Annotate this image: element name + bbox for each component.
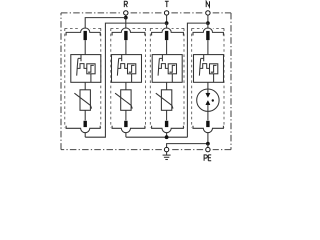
- module 4 housing (dashed plug-in module boundary): [192, 28, 224, 127]
- wire: N feed down to N bus (via channel left of module 4): [187, 23, 208, 137]
- module 1 bottom plug-in contact (disconnector): [66, 121, 100, 133]
- wire: box to N-PE spark gap: [207, 82, 209, 89]
- module 2 top plug-in contact (disconnector): [112, 28, 145, 55]
- N bus (module 2 and 3 outputs to N feed): [126, 136, 187, 138]
- junction node at R feed: [124, 16, 128, 20]
- wire: module 3 output stub: [166, 133, 168, 137]
- N-PE spark gap F4 (circle with facing arrows): [197, 89, 219, 111]
- wire: module 2 output stub: [125, 133, 127, 137]
- junction node at N feed: [206, 21, 210, 25]
- module 3 top plug-in contact (disconnector): [152, 28, 184, 55]
- PE bus (earth link): [167, 144, 208, 148]
- wire: N-PE spark gap to bottom disconnector: [207, 111, 209, 120]
- wire: box to varistor, module 1: [84, 82, 86, 90]
- wire: varistor to bottom disconnector, module 2: [125, 110, 127, 120]
- junction node: module 4 output on PE bus: [206, 142, 210, 146]
- triggered spark gap U4 (box with electrodes and trigger unit): [194, 55, 224, 83]
- PE terminal: [206, 147, 210, 151]
- triggered spark gap U3 (box with electrodes and trigger unit): [152, 55, 182, 83]
- wire: varistor to bottom disconnector, module 1: [84, 110, 86, 120]
- terminal N (neutral conductor) with label: [206, 1, 210, 23]
- terminal T (line conductor) with label: [164, 1, 168, 23]
- junction node at T feed: [165, 21, 169, 25]
- wire: T feed down to module 1 bottom (via left channel): [85, 23, 166, 137]
- label PE: [204, 155, 211, 161]
- wire: N to module 4 top: [207, 23, 209, 29]
- wire: module 1 output stub: [84, 133, 86, 137]
- terminal R (line conductor) with label: [124, 1, 128, 17]
- module 2 bottom plug-in contact (disconnector): [112, 121, 145, 133]
- module 4 bottom plug-in contact (disconnector): [193, 121, 223, 133]
- triggered spark gap U1 (box with electrodes and trigger unit): [71, 55, 101, 83]
- module 2 housing (dashed plug-in module boundary): [111, 28, 146, 127]
- varistor RV3: [156, 90, 173, 111]
- module 3 bottom plug-in contact (disconnector): [152, 121, 184, 133]
- wire: PE bus to PE terminal: [207, 144, 209, 148]
- triggered spark gap U2 (box with electrodes and trigger unit): [112, 55, 142, 83]
- varistor RV1: [74, 90, 91, 111]
- wire: T to module 3 top: [166, 23, 168, 29]
- wire: box to varistor, module 2: [125, 82, 127, 90]
- varistor RV2: [115, 90, 132, 111]
- ground symbol: [163, 152, 171, 160]
- module 3 housing (dashed plug-in module boundary): [150, 28, 184, 127]
- wire: box to varistor, module 3: [166, 82, 168, 90]
- wire: module 4 output stub: [207, 133, 209, 144]
- wire: R to module 2 top: [125, 18, 127, 29]
- module 1 housing (dashed plug-in module boundary): [65, 28, 101, 127]
- device enclosure boundary (dash-dot): [61, 13, 231, 150]
- wire: varistor to bottom disconnector, module 3: [166, 110, 168, 120]
- wire: R to module 1 top: [85, 18, 126, 29]
- earth terminal: [164, 147, 168, 151]
- module 4 top plug-in contact (disconnector): [193, 28, 223, 55]
- junction node: module 3 output on N bus: [165, 135, 169, 139]
- module 1 top plug-in contact (disconnector): [66, 28, 100, 55]
